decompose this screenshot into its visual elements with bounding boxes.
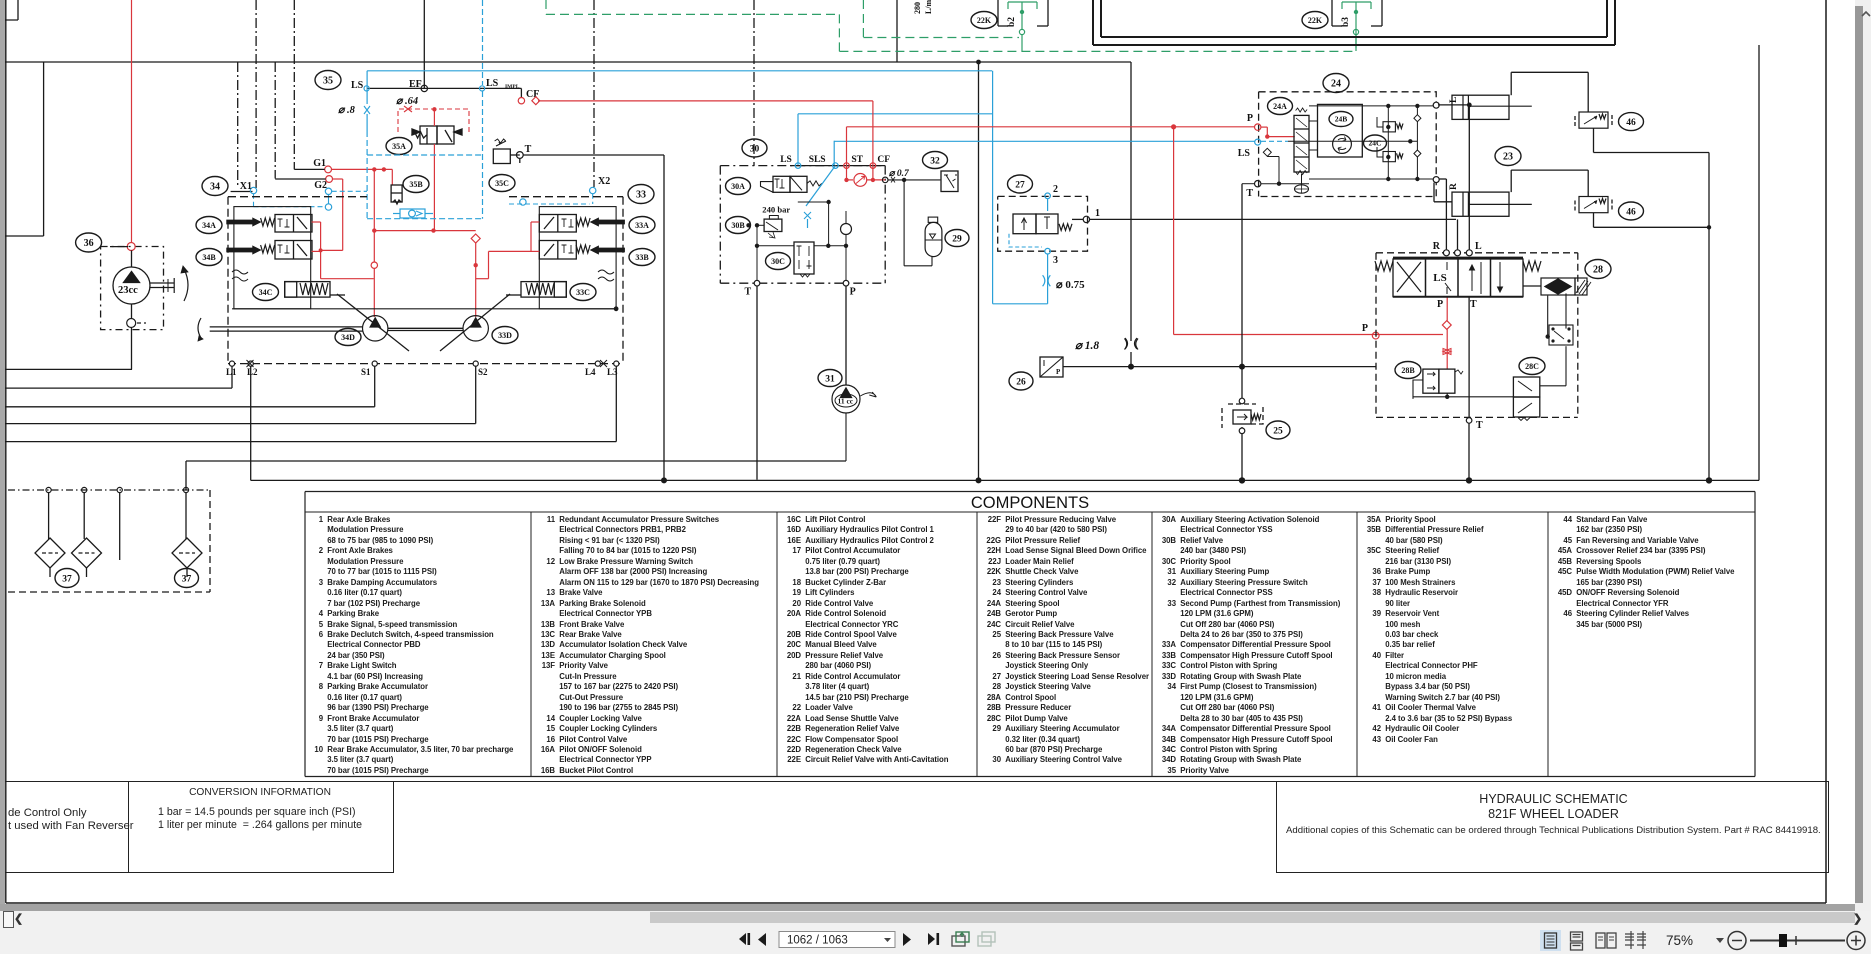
- svg-text:32: 32: [930, 156, 940, 166]
- svg-text:LS: LS: [351, 80, 364, 91]
- svg-text:24: 24: [1331, 79, 1341, 90]
- svg-text:LS: LS: [486, 78, 499, 89]
- svg-text:L: L: [1475, 241, 1482, 252]
- svg-text:31: 31: [825, 374, 835, 384]
- svg-text:25: 25: [1273, 426, 1283, 436]
- svg-text:35B: 35B: [409, 180, 423, 189]
- svg-text:35A: 35A: [392, 142, 406, 151]
- svg-text:ST: ST: [851, 155, 863, 165]
- svg-text:L/min: L/min: [924, 0, 933, 14]
- svg-text:T: T: [525, 144, 532, 155]
- svg-text:⌀ .8: ⌀ .8: [338, 105, 356, 116]
- svg-text:P: P: [1056, 368, 1061, 376]
- svg-text:⌀ 0.75: ⌀ 0.75: [1056, 279, 1085, 291]
- svg-text:L4: L4: [585, 367, 596, 377]
- svg-text:S2: S2: [478, 367, 488, 377]
- svg-text:T: T: [1476, 420, 1483, 431]
- svg-text:LS: LS: [1433, 272, 1446, 284]
- svg-text:EF: EF: [409, 79, 422, 90]
- svg-text:T: T: [1246, 188, 1253, 199]
- svg-text:LS: LS: [1238, 148, 1251, 159]
- svg-text:24B: 24B: [1335, 115, 1348, 124]
- svg-text:b2: b2: [1007, 17, 1017, 27]
- svg-text:R: R: [1433, 241, 1441, 252]
- svg-text:34A: 34A: [202, 221, 216, 230]
- svg-text:11 cc: 11 cc: [838, 397, 854, 406]
- svg-text:23: 23: [1503, 152, 1513, 163]
- svg-text:24C: 24C: [1369, 139, 1382, 148]
- svg-text:33B: 33B: [635, 253, 649, 262]
- svg-text:35: 35: [323, 76, 333, 87]
- svg-text:P: P: [1362, 323, 1368, 334]
- svg-text:33D: 33D: [498, 331, 512, 340]
- svg-text:X2: X2: [598, 176, 610, 187]
- svg-text:G2: G2: [314, 180, 327, 191]
- svg-text:33C: 33C: [576, 288, 590, 297]
- svg-text:22K: 22K: [977, 16, 992, 25]
- svg-text:P: P: [850, 287, 856, 298]
- svg-text:37: 37: [62, 574, 72, 584]
- svg-text:b3: b3: [1341, 17, 1351, 27]
- svg-text:28B: 28B: [1401, 366, 1415, 375]
- svg-text:X1: X1: [240, 181, 252, 192]
- svg-text:33A: 33A: [635, 221, 649, 230]
- svg-text:1: 1: [1095, 208, 1100, 219]
- svg-text:T: T: [1470, 299, 1477, 310]
- svg-text:⌀ .64: ⌀ .64: [396, 96, 418, 107]
- svg-text:46: 46: [1626, 207, 1636, 217]
- svg-text:22K: 22K: [1308, 16, 1323, 25]
- svg-text:L1: L1: [226, 367, 237, 377]
- svg-text:IMPL: IMPL: [505, 84, 520, 90]
- svg-text:30C: 30C: [771, 257, 785, 266]
- svg-text:L3: L3: [607, 367, 618, 377]
- svg-text:75%: 75%: [1666, 933, 1693, 948]
- svg-text:⌀ 1.8: ⌀ 1.8: [1075, 340, 1099, 352]
- svg-text:24A: 24A: [1273, 102, 1287, 111]
- svg-text:30: 30: [750, 144, 760, 154]
- svg-text:29: 29: [952, 234, 962, 244]
- svg-text:34: 34: [210, 182, 220, 193]
- svg-text:37: 37: [182, 574, 192, 584]
- svg-text:CF: CF: [877, 155, 890, 165]
- svg-text:35C: 35C: [495, 179, 509, 188]
- svg-text:30A: 30A: [731, 182, 745, 191]
- svg-text:280: 280: [913, 2, 922, 14]
- svg-text:1062 / 1063: 1062 / 1063: [787, 935, 848, 947]
- svg-text:240 bar: 240 bar: [762, 205, 790, 215]
- svg-text:S1: S1: [361, 367, 371, 377]
- svg-text:34D: 34D: [341, 333, 355, 342]
- svg-text:P: P: [1247, 113, 1253, 124]
- svg-text:LS: LS: [780, 155, 792, 165]
- svg-text:P: P: [1437, 299, 1443, 310]
- svg-text:34C: 34C: [259, 288, 273, 297]
- svg-text:L: L: [1449, 97, 1459, 103]
- svg-text:28: 28: [1593, 265, 1603, 276]
- svg-text:30B: 30B: [731, 221, 745, 230]
- svg-text:T: T: [745, 287, 752, 298]
- svg-text:⌀ 0.7: ⌀ 0.7: [889, 169, 910, 179]
- svg-text:L2: L2: [247, 367, 258, 377]
- svg-text:SLS: SLS: [809, 155, 826, 165]
- svg-text:3: 3: [1053, 255, 1058, 266]
- svg-text:33: 33: [636, 190, 646, 201]
- svg-text:2: 2: [1053, 184, 1058, 195]
- svg-text:R: R: [1449, 183, 1459, 190]
- svg-text:46: 46: [1626, 118, 1636, 128]
- svg-text:G1: G1: [313, 158, 326, 169]
- svg-text:28C: 28C: [1525, 362, 1539, 371]
- svg-text:27: 27: [1015, 180, 1025, 190]
- svg-text:26: 26: [1016, 377, 1026, 387]
- svg-text:34B: 34B: [202, 253, 216, 262]
- svg-text:23cc: 23cc: [118, 285, 138, 296]
- svg-text:36: 36: [84, 238, 94, 249]
